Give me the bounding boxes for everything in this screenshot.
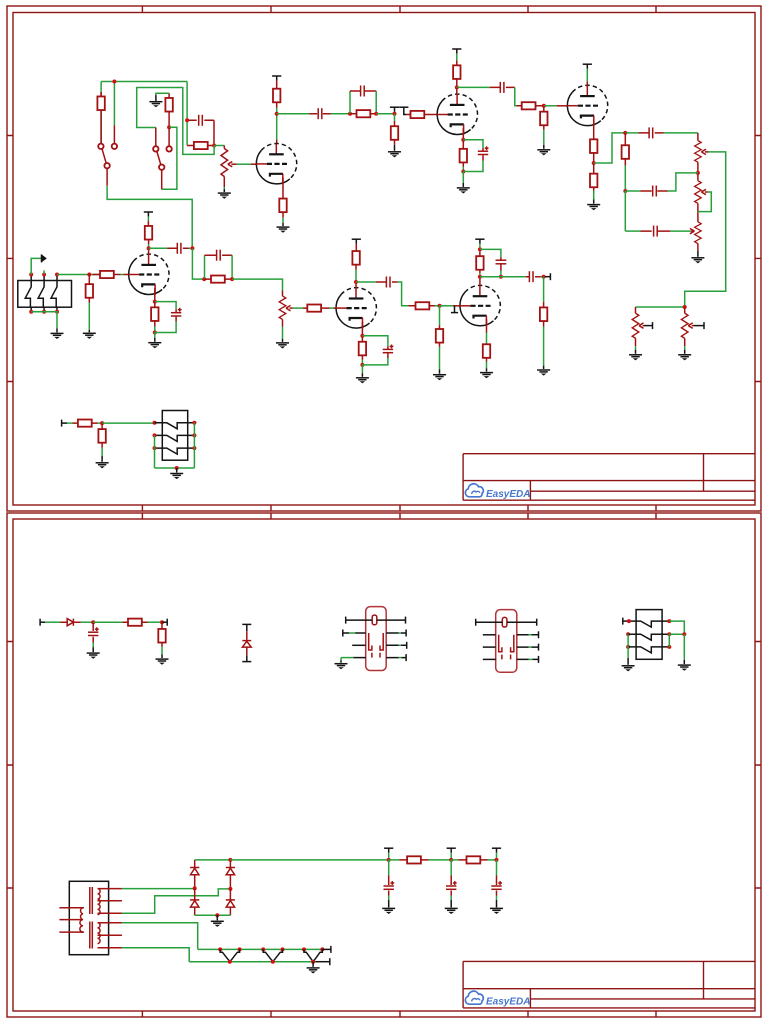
junction dot V2 plate node: [455, 85, 459, 89]
T1 secondary 1 winding: [98, 889, 101, 915]
sheet2 left edge row ticks: [7, 642, 13, 889]
J1 top pin dots: [29, 273, 59, 277]
ground below R22: [433, 375, 446, 381]
capacitor C1a: [189, 115, 215, 126]
heater rail dots: [218, 947, 324, 951]
wire J1 pin3 to grid node: [57, 274, 102, 276]
ground below R30: [156, 659, 169, 665]
resistor R4 anode load V1: [273, 81, 280, 108]
R25 ground stem: [543, 366, 545, 369]
power bar above V6: [475, 239, 484, 244]
T1 secondary 2 leads: [98, 923, 122, 948]
XV1 pin row 2 left: [343, 630, 366, 637]
J2 prong 2: [162, 435, 187, 441]
V3 plate pin: [586, 81, 588, 85]
XV2 pin row 2 right: [517, 631, 539, 638]
junction dot cap C1a left: [185, 118, 189, 122]
ground below C17: [490, 908, 503, 914]
P5 wire to ground: [635, 346, 637, 350]
wire R4 to V1 plate node: [276, 108, 278, 140]
resistor R20 anode load V5: [352, 244, 359, 270]
SHEET2-CIRCUIT: [40, 607, 691, 974]
junction dot V6 plate node: [478, 275, 482, 279]
wire node to jack J2: [102, 422, 154, 424]
wire V3 cathode to tone stack: [594, 133, 626, 163]
V6 cathode pin: [486, 319, 488, 332]
J3 right ground stem: [683, 660, 685, 664]
ground below C16: [445, 908, 458, 914]
wire heater bottom rail: [189, 961, 315, 963]
wire V2 cathode node to ground: [462, 172, 464, 183]
switch SW1 common stem: [106, 168, 108, 185]
wire C5 to P2 top: [664, 132, 698, 134]
capacitor C4 coupling: [490, 82, 515, 93]
junction dot V4 plate node: [147, 246, 151, 250]
line out stub: [62, 420, 67, 427]
ground below J3 right: [678, 665, 691, 671]
resistor R31 filter: [400, 856, 429, 863]
resistor R19 grid stopper V5: [303, 305, 330, 312]
junction dot V3 grid node: [542, 104, 546, 108]
wire volume feed: [636, 306, 685, 308]
triode V2: [437, 94, 478, 135]
T1 core bars: [90, 887, 93, 949]
sheet2 bottom edge column ticks: [142, 1011, 656, 1017]
bridge ground stem: [216, 915, 218, 920]
V5 grid pin: [334, 307, 337, 309]
capacitor CK4 bypass electrolytic: [171, 308, 182, 322]
ground below R28: [96, 463, 109, 469]
junction dot V4 grid node: [87, 273, 91, 277]
wire loop right of R3: [162, 127, 177, 189]
wire riser RC3 right: [231, 255, 233, 279]
sheet1 bottom edge column ticks: [142, 505, 656, 511]
junction dot bias node 2: [160, 620, 164, 624]
power bar above V5: [352, 239, 361, 244]
wire bar to node 1: [388, 853, 390, 860]
P1 ground stem: [223, 189, 225, 192]
capacitor C3 parallel top: [350, 86, 376, 97]
wire R23 to bottom node: [361, 360, 363, 365]
wire bridge bottom rail: [195, 914, 231, 916]
power transformer T1 body: [69, 881, 108, 954]
J1 bottom pin dots: [29, 310, 59, 314]
wire R22 to ground: [439, 347, 441, 370]
R3 ground link wire: [156, 93, 169, 95]
resistor R14 tone slope: [622, 133, 629, 166]
junction dot B+ start: [228, 858, 232, 862]
wire grid node down: [394, 114, 396, 121]
input arrow flag: [42, 254, 47, 262]
J1 ground stem: [56, 328, 58, 332]
wire R20 to plate node: [355, 270, 357, 285]
ground below P5: [629, 355, 642, 361]
resistor R16 input shunt: [86, 275, 93, 303]
resistor R26 cathode V6: [483, 344, 490, 361]
wire V6 grid node down: [439, 306, 441, 326]
XV2 pin row 4 left: [483, 658, 496, 660]
capacitor C5 treble: [639, 127, 664, 138]
V3 cathode pin: [593, 119, 595, 139]
ground below R11: [537, 150, 550, 156]
capacitor C13 coupling: [526, 271, 541, 282]
wire V5 plate to C10: [356, 281, 376, 283]
junction dot tone mid node: [623, 189, 627, 193]
wire mid node down to C7 rail: [624, 191, 626, 231]
P1 wiper arrow: [228, 162, 237, 167]
triode V6: [460, 285, 501, 326]
output net stub: [545, 273, 550, 280]
rectifier D6 bottom right: [226, 889, 235, 915]
J1 prong 2: [38, 281, 44, 308]
wire R30 to ground: [161, 647, 163, 655]
junction dot V5 cathode bottom: [360, 363, 364, 367]
switch SW1 throw stems: [101, 126, 114, 144]
wire riser RC3 left: [204, 255, 206, 279]
XV1 pin row 1: [346, 617, 406, 624]
junction dot V1 plate node: [275, 112, 279, 116]
wire V6 cathode: [486, 333, 488, 346]
junction dot bridge ground: [215, 913, 219, 917]
wire V4 cathode node to ground: [154, 333, 156, 338]
junction dot V2 cathode bottom: [461, 170, 465, 174]
R30 ground stem: [161, 655, 163, 659]
V5 cathode ground stem: [361, 373, 363, 377]
resistor R9 anode load V2: [453, 61, 460, 88]
J3 prong 2: [636, 634, 662, 640]
ground below J1: [51, 333, 64, 339]
C15 ground stem: [388, 900, 390, 907]
V2 grid pin: [432, 114, 437, 116]
wire C13 to output node: [541, 276, 544, 278]
XV1 pin row 4 right: [386, 654, 406, 661]
potentiometer P7 volume: [279, 291, 286, 327]
V4 cathode ground stem: [154, 338, 156, 342]
wire riser RC2 right: [375, 91, 377, 114]
wire dot to pot P1 top: [214, 145, 224, 147]
J1 top pins: [31, 275, 57, 281]
wire C1a right drop: [213, 120, 215, 145]
triode V4: [128, 254, 169, 295]
ground near R3: [149, 102, 162, 108]
wire J2 bottom rail: [155, 467, 195, 469]
P7 ground stem: [282, 339, 284, 342]
ground below J2: [170, 474, 183, 480]
junction dot filter node 2: [449, 858, 453, 862]
resistor R13 cathode V3 lower: [590, 163, 597, 191]
R13 ground stem: [593, 200, 595, 204]
resistor R3: [165, 98, 172, 127]
junction dot V3 cathode divider: [592, 161, 596, 165]
resistor R29: [122, 619, 147, 626]
switch SW1 circle A: [98, 144, 103, 149]
SHEET1-CIRCUIT: [18, 49, 726, 479]
J2 right pins: [188, 423, 195, 448]
resistor R25 output leak: [540, 302, 547, 327]
wire R29 to node 2: [148, 621, 163, 623]
wire supply node to C12: [480, 249, 501, 257]
R7 ground stem: [394, 145, 396, 151]
ground below C15: [382, 908, 395, 914]
V5 cathode pin: [361, 322, 363, 336]
wire R17 to plate node: [148, 244, 150, 251]
rectifier D4 bottom left: [190, 888, 199, 915]
power bar above V2: [452, 49, 461, 54]
resistor R11 grid leak V3: [540, 106, 547, 130]
P2 wiper arrow: [701, 149, 708, 154]
J2 left pins: [155, 423, 163, 448]
J2 prong 1: [162, 423, 187, 429]
wire P2 wiper to channel pots: [685, 152, 726, 307]
junction dot RC2 left: [348, 112, 352, 116]
capacitor C2 coupling: [310, 108, 331, 119]
capacitor C6 bass: [641, 186, 668, 197]
wire top bus net B1: [101, 81, 187, 83]
sheet1 inner border frame: [13, 13, 755, 506]
V2 cathode pin: [462, 128, 464, 140]
junction dot tone stack input: [623, 131, 627, 135]
V6 grid pin: [453, 305, 460, 307]
wire D1 to node: [81, 621, 94, 623]
wire R13 to ground: [593, 191, 595, 200]
wire heater B: [122, 948, 189, 962]
wire J2 left pins to bottom rail: [154, 435, 156, 468]
net stub below D2: [242, 655, 251, 661]
junction dot C12 bottom: [499, 275, 503, 279]
potentiometer P4 mid: [695, 222, 702, 251]
resistor R3 top link to ground: [168, 93, 170, 98]
triode V1: [256, 143, 297, 184]
J3 prong 1: [636, 621, 662, 627]
wire P7 wiper to R19: [293, 307, 304, 309]
XV1 heater element: [372, 615, 377, 625]
junction dot filter node 3: [495, 858, 499, 862]
sheet1 top edge column ticks: [142, 6, 656, 13]
junction dot RC2 right: [374, 112, 378, 116]
J3 left pin dots: [626, 619, 631, 649]
heater bottom dots: [228, 960, 315, 964]
wire V6 plate row: [480, 276, 526, 278]
resistor RK2 cathode V2: [460, 140, 467, 167]
J1 bottom pins: [31, 307, 57, 312]
heater rail stub right: [322, 946, 331, 953]
XV1 pin row 3 right: [386, 642, 407, 649]
wire CK2 bottom loop: [463, 161, 483, 172]
heater bottom stub right: [316, 958, 330, 965]
wire C7 to left rail: [625, 230, 640, 232]
resistor RK4 cathode V4: [151, 302, 158, 327]
junction dot RC to pot: [212, 144, 216, 148]
ground below R13: [587, 205, 600, 211]
junction dot J2 rail: [175, 466, 179, 470]
wire bar to node 2: [450, 853, 452, 860]
wire V2 plate to C4: [457, 86, 490, 88]
filter cap C15: [384, 860, 395, 896]
P5 wiper arrow with stub: [639, 322, 653, 329]
wire V4 cathode to CK4 top: [155, 302, 176, 310]
junction dot V4 cathode bottom: [153, 331, 157, 335]
wire C8 to mix node: [189, 247, 193, 249]
T1 primary winding: [80, 908, 83, 932]
resistor R8 grid stopper: [407, 111, 432, 118]
wire heater A: [122, 923, 198, 950]
resistor R10: [517, 102, 544, 109]
wire C14 to ground: [92, 643, 94, 648]
power bar T2 with bend: [399, 107, 408, 114]
XV1 pin row 3 left: [352, 644, 366, 646]
capacitor C11 bypass electrolytic: [383, 345, 394, 359]
ground below P1: [218, 193, 231, 199]
power bar above filter node 2: [447, 848, 456, 853]
wire C4 down to R10: [515, 87, 517, 105]
V4 plate pin: [148, 251, 150, 255]
wire drop to switch S1 pole B: [113, 82, 115, 126]
V2 plate pin: [456, 89, 458, 95]
sheet1 outer border frame: [7, 6, 761, 511]
P7 wiper arrow: [286, 305, 293, 310]
T1 secondary 2 winding: [98, 923, 101, 944]
capacitor C12 snubber: [496, 258, 507, 271]
wire C2 to RC node A: [331, 113, 351, 115]
wire CK4 bottom loop: [155, 322, 176, 333]
power bar above filter node 3: [492, 848, 501, 853]
wire R24 to plate node: [479, 273, 481, 279]
potentiometer P6: [681, 307, 688, 346]
wire J1 tip to input arrow: [31, 258, 41, 274]
wire T to R9: [456, 54, 458, 61]
wire mid node to C6: [625, 190, 640, 192]
R28 ground stem: [101, 456, 103, 462]
junction dot between P2 P3: [696, 171, 700, 175]
resistor R1: [97, 92, 104, 127]
rectifier D5 top right: [226, 860, 235, 889]
wire R32 leads: [451, 859, 496, 861]
V1 cathode pin: [282, 178, 284, 199]
J2 right pin dots: [192, 421, 196, 450]
wire HT B to bridge: [122, 889, 230, 913]
wire R21 to V6 grid node: [435, 305, 440, 307]
switch SW1 common circle: [104, 163, 109, 168]
wire riser RC2 left: [349, 91, 351, 114]
junction dot volume feed: [683, 305, 687, 309]
wire stub to R27: [67, 422, 73, 424]
bias input stub: [40, 619, 45, 626]
R11 ground stem: [543, 145, 545, 149]
sheet2 top edge column ticks: [142, 513, 656, 519]
wire R14 to mid node: [624, 166, 626, 192]
sheet2 title block table: [463, 961, 755, 1008]
V1 plate pin: [276, 140, 278, 144]
J2 prong 3: [162, 448, 187, 454]
junction dot J3 right: [682, 632, 686, 636]
J3 right pins: [662, 621, 669, 647]
SHEET2: [7, 513, 761, 1017]
wire T to V3 plate: [586, 69, 588, 82]
heater pair Y1: [220, 949, 239, 961]
wire tone input to C5: [625, 132, 638, 134]
R16 ground stem: [88, 330, 90, 333]
capacitor C7 mid: [641, 226, 671, 237]
junction dot top bus: [112, 80, 116, 84]
V4 grid pin: [123, 274, 128, 276]
wire heater top rail: [198, 948, 323, 950]
resistor R23 cathode V5: [359, 336, 366, 360]
V1 grid pin: [251, 163, 256, 165]
switch SW2 common circle: [159, 165, 164, 170]
sheet2 outer border frame: [7, 513, 761, 1017]
resistor R28 shunt: [98, 423, 105, 447]
wire V4 plate to C8: [149, 247, 168, 249]
wire cathode node to ground: [361, 365, 363, 373]
J3 left pins 2 3: [628, 634, 636, 647]
capacitor C9 parallel: [205, 250, 233, 261]
switch SW2 blade: [157, 152, 161, 165]
T1 primary leads: [59, 908, 84, 932]
wire R16 to ground: [88, 303, 90, 330]
wire stub to D1: [45, 621, 60, 623]
heater pair Y2: [263, 949, 282, 961]
wire P4 wiper to C7: [670, 230, 691, 232]
filter cap C17: [491, 860, 502, 896]
C15 wire to ground: [388, 896, 390, 901]
resistor R6 parallel: [350, 110, 376, 117]
resistor R17 anode load V4: [145, 221, 152, 244]
P6 wire to ground: [684, 346, 686, 350]
wire J3 left ground drop: [627, 634, 629, 658]
rectifier D3 top left: [190, 860, 199, 888]
wire RC2 to grid node: [376, 113, 394, 115]
wire R28 to ground: [101, 448, 103, 456]
switch SW1 blade: [102, 149, 106, 163]
J3 prong 3: [636, 647, 662, 653]
input jack J1 body: [18, 281, 72, 308]
switch SW2 circle B: [166, 146, 171, 151]
wire RK4 to bottom node: [154, 327, 156, 333]
C16 ground stem: [450, 900, 452, 907]
net stub above D2: [242, 624, 251, 631]
triode V5: [336, 288, 377, 329]
wire T to R24: [479, 244, 481, 252]
resistor R2: [187, 142, 214, 149]
diode D1: [61, 619, 81, 626]
R3 ground stem: [155, 95, 157, 101]
junction dot filter node 1: [387, 858, 391, 862]
wire to V3 grid: [544, 105, 557, 107]
junction dot below R3: [167, 125, 171, 129]
heater centertap ground stem: [312, 962, 314, 967]
J1 prong 1: [25, 281, 31, 308]
XV2 heater element: [502, 617, 507, 627]
wire P3 wiper tie to bottom: [698, 192, 711, 212]
wire C12 to plate row: [500, 271, 502, 277]
junction dot AC2: [228, 887, 232, 891]
P1 bottom stem: [223, 187, 225, 189]
J3 right pin dots: [667, 619, 671, 649]
junction dot output node: [542, 275, 546, 279]
capacitor C8 coupling: [167, 243, 188, 254]
power bar above filter node 1: [384, 848, 393, 853]
ground below P6: [678, 355, 691, 361]
wire R5 to ground: [282, 218, 284, 224]
potentiometer P3 bass: [695, 173, 702, 222]
wire J2 right pins down: [193, 423, 195, 468]
sheet1 right edge row ticks: [755, 136, 761, 382]
XV2 internal contacts: [499, 635, 514, 660]
filter cap C16: [446, 860, 457, 896]
wire SW1 common to V4 coupling node: [107, 186, 192, 249]
diode D2 vertical: [242, 631, 251, 655]
switch SW2 common stem: [161, 170, 163, 189]
